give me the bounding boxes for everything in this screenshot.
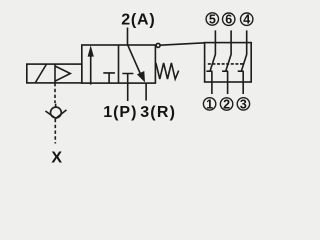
arrowhead up (flow arrow)	[88, 45, 94, 56]
svg-text:4: 4	[243, 13, 250, 27]
blade 3	[241, 54, 246, 71]
circle 1	[203, 98, 215, 110]
terminal 5 line	[214, 30, 216, 54]
svg-text:1: 1	[206, 97, 213, 111]
contact cap 3	[238, 70, 244, 72]
svg-text:3: 3	[240, 97, 247, 111]
contact cap 1	[206, 70, 212, 72]
node	[156, 43, 160, 47]
check valve seat	[45, 110, 66, 119]
solenoid box	[27, 64, 82, 83]
circle 3	[237, 98, 249, 110]
circle 2	[220, 98, 232, 110]
wire to switch box	[160, 43, 204, 45]
blocked port T 1(P)	[122, 74, 133, 102]
pilot dashed line upper	[54, 83, 56, 103]
circle 6	[223, 13, 235, 25]
switch box	[205, 43, 252, 82]
svg-text:2: 2	[223, 98, 230, 112]
pilot dashed line lower	[54, 119, 56, 144]
terminal 1 line	[211, 71, 213, 94]
terminal 2 line	[227, 71, 229, 94]
flow arrow shaft	[90, 56, 92, 85]
svg-text:2(A): 2(A)	[121, 12, 155, 29]
svg-text:5: 5	[209, 13, 216, 27]
return spring	[156, 63, 179, 79]
pilot line stub at ball	[55, 104, 57, 107]
exhaust diagonal	[128, 45, 142, 77]
port 3(R) line	[145, 83, 147, 100]
terminal 6 line	[230, 30, 232, 54]
svg-text:1(P): 1(P)	[103, 104, 137, 121]
circle 5	[206, 13, 218, 25]
pilot triangle	[55, 66, 70, 81]
circle 4	[241, 13, 253, 25]
arrowhead exhaust	[137, 71, 145, 82]
terminal 3 line	[242, 71, 244, 94]
blade 1	[210, 54, 215, 71]
solenoid diagonal	[35, 64, 46, 83]
pilot divider	[54, 64, 56, 83]
circled terminal numbers top	[203, 13, 252, 110]
terminal 4 line	[246, 30, 248, 54]
svg-text:X: X	[51, 150, 62, 167]
port 2(A) line	[127, 28, 129, 46]
contact cap 2	[222, 70, 228, 72]
svg-text:6: 6	[225, 13, 232, 27]
valve divider	[118, 45, 120, 83]
valve body	[82, 45, 156, 83]
mechanical link dashed	[208, 63, 245, 65]
blade 2	[226, 54, 231, 71]
svg-text:3(R): 3(R)	[140, 104, 176, 121]
check valve ball	[51, 107, 62, 118]
blocked port T left	[103, 73, 115, 83]
